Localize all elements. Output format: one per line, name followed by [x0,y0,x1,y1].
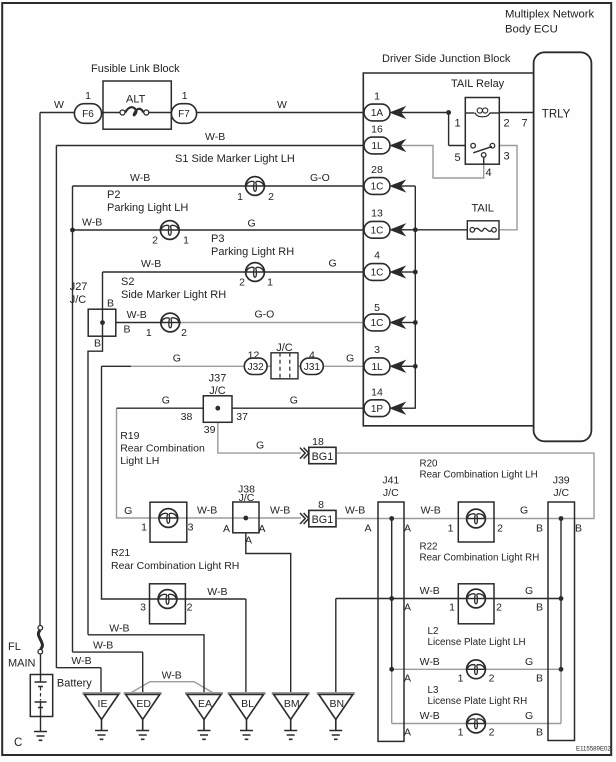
svg-text:3: 3 [140,602,146,614]
svg-text:R19: R19 [120,430,139,442]
svg-text:1L: 1L [371,141,383,152]
svg-text:18: 18 [312,436,324,448]
svg-text:FL: FL [8,641,21,653]
svg-text:5: 5 [454,152,460,164]
svg-text:A: A [404,673,411,685]
svg-text:A: A [245,535,252,547]
svg-text:2: 2 [152,235,158,247]
svg-text:W: W [54,99,64,111]
svg-text:J/C: J/C [70,294,87,306]
svg-text:W-B: W-B [130,172,150,184]
svg-text:J/C: J/C [276,342,293,354]
svg-text:A: A [258,523,265,535]
svg-text:38: 38 [181,411,193,423]
svg-text:G: G [329,258,337,270]
svg-text:1: 1 [454,118,460,130]
svg-text:J/C: J/C [383,487,399,499]
svg-text:1: 1 [448,523,454,535]
svg-text:L2: L2 [428,626,439,637]
svg-text:ALT: ALT [126,94,146,106]
svg-text:16: 16 [371,124,383,136]
svg-text:P2: P2 [107,189,120,201]
svg-text:G-O: G-O [255,309,275,321]
svg-text:Parking Light RH: Parking Light RH [211,246,294,258]
svg-text:L3: L3 [428,685,439,696]
svg-text:2: 2 [187,602,193,614]
svg-text:A: A [404,602,411,614]
svg-text:W-B: W-B [207,586,227,598]
svg-text:5: 5 [374,302,380,314]
svg-text:Fusible Link Block: Fusible Link Block [91,63,180,75]
svg-text:28: 28 [371,164,383,176]
svg-text:G: G [525,585,533,597]
svg-text:A: A [364,523,371,535]
svg-text:W-B: W-B [71,655,91,667]
svg-text:A: A [223,523,230,535]
svg-text:W-B: W-B [197,505,217,517]
svg-text:W-B: W-B [420,710,440,722]
svg-text:TAIL: TAIL [472,203,494,215]
svg-text:2: 2 [489,727,495,739]
svg-text:1: 1 [141,522,147,534]
svg-text:G: G [346,353,354,365]
svg-text:12: 12 [248,350,260,362]
svg-text:W-B: W-B [127,309,147,321]
svg-text:13: 13 [371,208,383,220]
svg-text:G: G [520,505,528,517]
svg-text:1: 1 [237,191,243,203]
svg-text:G: G [173,353,181,365]
svg-text:4: 4 [309,350,315,362]
svg-text:B: B [536,673,543,685]
svg-text:TAIL Relay: TAIL Relay [451,78,505,90]
svg-text:1: 1 [449,602,455,614]
svg-text:2: 2 [497,523,503,535]
svg-text:R21: R21 [111,547,130,559]
svg-text:J32: J32 [248,362,265,373]
svg-text:Side Marker Light RH: Side Marker Light RH [121,289,226,301]
svg-text:37: 37 [236,411,248,423]
svg-text:EA: EA [198,698,212,710]
svg-text:G-O: G-O [310,172,330,184]
svg-text:Light LH: Light LH [120,455,159,467]
svg-text:1: 1 [85,90,91,102]
svg-text:J/C: J/C [209,385,226,397]
svg-text:W-B: W-B [141,258,161,270]
svg-text:Rear Combination Light RH: Rear Combination Light RH [420,553,540,564]
svg-text:1C: 1C [371,182,384,193]
svg-text:A: A [404,727,411,739]
svg-text:J/C: J/C [239,492,255,504]
svg-text:1: 1 [458,727,464,739]
svg-text:7: 7 [521,118,527,130]
svg-text:F7: F7 [178,109,190,120]
svg-text:R22: R22 [420,542,438,553]
svg-text:Rear Combination Light LH: Rear Combination Light LH [420,470,538,481]
svg-text:8: 8 [318,499,324,511]
svg-text:G: G [248,218,256,230]
svg-text:R20: R20 [420,459,439,470]
svg-text:1C: 1C [371,318,384,329]
svg-text:ED: ED [136,698,151,710]
svg-text:P3: P3 [211,233,224,245]
svg-text:W-B: W-B [162,670,182,682]
svg-text:W-B: W-B [82,217,102,229]
svg-text:J37: J37 [209,373,227,385]
svg-text:BN: BN [330,698,345,710]
svg-text:W-B: W-B [205,131,225,143]
svg-text:G: G [256,440,264,452]
svg-text:G: G [525,656,533,668]
svg-text:S1 Side Marker Light LH: S1 Side Marker Light LH [175,153,295,165]
svg-text:W-B: W-B [93,640,113,652]
svg-text:1C: 1C [371,225,384,236]
svg-text:J41: J41 [382,475,399,487]
svg-text:4: 4 [485,167,491,179]
svg-text:1C: 1C [371,268,384,279]
svg-text:14: 14 [371,387,383,399]
svg-text:Rear Combination: Rear Combination [120,443,205,455]
svg-text:Rear Combination Light RH: Rear Combination Light RH [111,560,239,572]
svg-text:2: 2 [181,327,187,339]
svg-text:IE: IE [98,698,108,710]
svg-text:B: B [107,298,114,310]
svg-text:1: 1 [267,277,273,289]
svg-text:1P: 1P [371,404,384,415]
svg-text:F6: F6 [82,109,94,120]
svg-text:1: 1 [374,91,380,103]
svg-text:J31: J31 [304,362,321,373]
svg-text:Body ECU: Body ECU [505,24,558,36]
svg-text:B: B [575,523,582,535]
svg-text:B: B [536,602,543,614]
svg-text:Battery: Battery [57,678,92,690]
svg-text:2: 2 [503,118,509,130]
svg-text:4: 4 [374,250,380,262]
svg-text:W-B: W-B [420,656,440,668]
svg-text:39: 39 [204,424,216,436]
svg-text:B: B [536,523,543,535]
svg-text:1: 1 [182,90,188,102]
svg-text:W-B: W-B [420,585,440,597]
svg-text:3: 3 [188,522,194,534]
svg-text:W: W [277,99,287,111]
svg-text:BG1: BG1 [312,451,334,463]
svg-text:W-B: W-B [270,505,290,517]
svg-text:2: 2 [496,602,502,614]
svg-text:G: G [162,395,170,407]
svg-text:License Plate Light RH: License Plate Light RH [428,696,528,707]
svg-text:1: 1 [458,673,464,685]
svg-text:1: 1 [146,327,152,339]
svg-text:B: B [536,727,543,739]
svg-text:Driver Side Junction Block: Driver Side Junction Block [382,53,511,65]
svg-text:3: 3 [503,151,509,163]
svg-text:B: B [94,338,101,350]
svg-text:W-B: W-B [421,505,441,517]
svg-text:J/C: J/C [553,487,569,499]
svg-text:Parking Light LH: Parking Light LH [107,202,188,214]
svg-text:License Plate Light LH: License Plate Light LH [428,637,526,648]
svg-text:W-B: W-B [345,505,365,517]
svg-text:G: G [525,710,533,722]
svg-text:G: G [124,505,132,517]
svg-text:W-B: W-B [109,623,129,635]
svg-text:TRLY: TRLY [542,109,571,121]
svg-text:2: 2 [489,673,495,685]
svg-text:G: G [290,395,298,407]
svg-text:J27: J27 [70,281,88,293]
svg-text:2: 2 [239,277,245,289]
svg-text:C: C [14,737,22,749]
svg-text:BL: BL [241,698,254,710]
svg-text:Multiplex Network: Multiplex Network [505,9,594,21]
svg-text:J39: J39 [553,475,570,487]
svg-text:S2: S2 [121,276,134,288]
svg-text:MAIN: MAIN [8,658,36,670]
svg-text:1A: 1A [371,108,384,119]
svg-text:1: 1 [183,235,189,247]
svg-text:BG1: BG1 [312,514,334,526]
svg-text:2: 2 [268,191,274,203]
svg-text:E115589E02: E115589E02 [576,746,611,753]
svg-text:1L: 1L [371,362,383,373]
svg-text:BM: BM [284,698,300,710]
svg-text:A: A [404,523,411,535]
svg-text:B: B [124,324,131,336]
svg-text:3: 3 [374,344,380,356]
